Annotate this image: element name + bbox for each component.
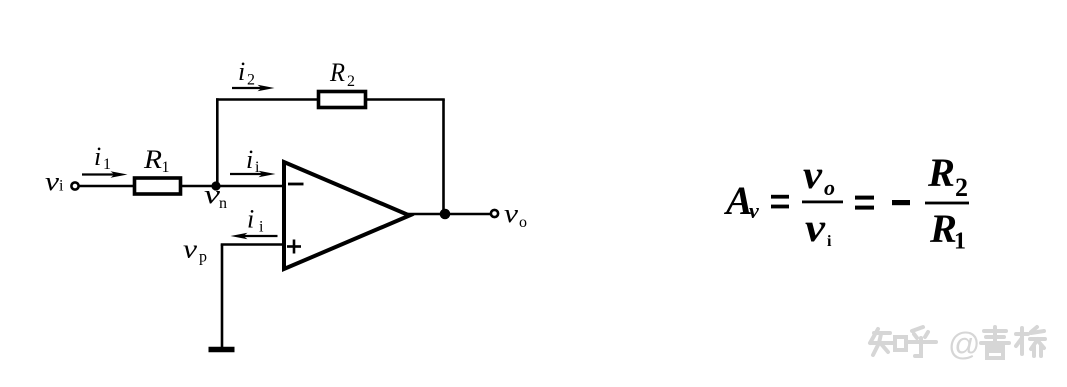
- formula Av: [723, 178, 759, 223]
- node vn: [211, 181, 220, 190]
- arrow i2: [232, 85, 275, 92]
- label R2: [329, 58, 355, 90]
- label ii lower: [247, 205, 264, 236]
- svg-text:i: i: [94, 142, 101, 171]
- svg-text:1: 1: [162, 159, 170, 176]
- svg-text:o: o: [519, 214, 527, 231]
- wire plus input: [221, 243, 284, 246]
- output terminal vo: [491, 210, 498, 217]
- fraction bar 2: [925, 202, 969, 205]
- svg-text:v: v: [803, 152, 823, 197]
- label i2: [238, 57, 255, 89]
- label ii upper: [246, 145, 260, 176]
- label vo: [504, 199, 527, 231]
- resistor R2: [319, 92, 366, 108]
- svg-text:1: 1: [103, 156, 111, 173]
- watermark zhihu: [870, 327, 936, 356]
- feedback wire top right: [366, 98, 445, 101]
- ground: [209, 347, 235, 353]
- resistor R1: [135, 178, 181, 194]
- watermark char zhi: [870, 329, 906, 355]
- svg-text:i: i: [246, 145, 253, 174]
- svg-text:i: i: [247, 205, 254, 234]
- watermark char hu: [908, 327, 936, 356]
- formula denominator R1: [929, 206, 966, 255]
- op-amp triangle: [284, 162, 410, 269]
- minus sign: [288, 183, 304, 186]
- label vi: [45, 167, 64, 196]
- svg-text:v: v: [749, 198, 759, 223]
- svg-text:2: 2: [347, 73, 355, 90]
- svg-text:v: v: [183, 235, 198, 264]
- formula numerator R2: [927, 150, 968, 202]
- node output: [440, 209, 451, 220]
- svg-text:i: i: [59, 178, 64, 195]
- feedback wire top left: [216, 98, 317, 101]
- svg-text:n: n: [219, 195, 227, 212]
- watermark char qiao: [1016, 327, 1045, 356]
- svg-text:R: R: [143, 145, 162, 174]
- svg-text:2: 2: [247, 72, 255, 89]
- svg-text:R: R: [329, 58, 345, 87]
- label R1: [143, 145, 170, 176]
- label vn: [204, 180, 227, 212]
- arrow ii upper: [230, 171, 276, 178]
- svg-text:i: i: [255, 159, 260, 176]
- output wire: [408, 213, 491, 216]
- svg-text:@: @: [948, 326, 980, 362]
- svg-text:v: v: [45, 167, 60, 196]
- wire R1 to opamp minus input: [182, 185, 284, 188]
- minus sign formula: [892, 200, 910, 205]
- wire input to R1: [80, 185, 135, 188]
- svg-text:o: o: [824, 175, 835, 200]
- svg-text:i: i: [238, 57, 245, 86]
- svg-text:1: 1: [954, 229, 966, 255]
- feedback wire vertical right: [442, 100, 445, 215]
- svg-text:v: v: [504, 199, 519, 228]
- arrow ii lower: [231, 233, 278, 240]
- svg-text:R: R: [927, 150, 955, 195]
- fraction bar 1: [802, 201, 843, 204]
- svg-text:R: R: [929, 206, 957, 251]
- feedback wire vertical left: [216, 98, 219, 186]
- input terminal vi: [71, 182, 78, 189]
- svg-text:i: i: [259, 219, 264, 236]
- watermark char qing: [981, 327, 1009, 358]
- svg-text:v: v: [805, 205, 826, 250]
- formula numerator vo: [803, 152, 835, 200]
- equals 2: [855, 196, 874, 210]
- formula denominator vi: [805, 205, 832, 250]
- label i1: [94, 142, 111, 173]
- svg-text:2: 2: [955, 173, 968, 202]
- svg-text:p: p: [199, 249, 207, 266]
- svg-text:i: i: [827, 233, 832, 250]
- equals 1: [771, 195, 789, 209]
- arrow i1: [82, 171, 128, 178]
- plus sign: [287, 240, 301, 254]
- wire ground vertical: [221, 245, 224, 348]
- label vp: [183, 235, 207, 266]
